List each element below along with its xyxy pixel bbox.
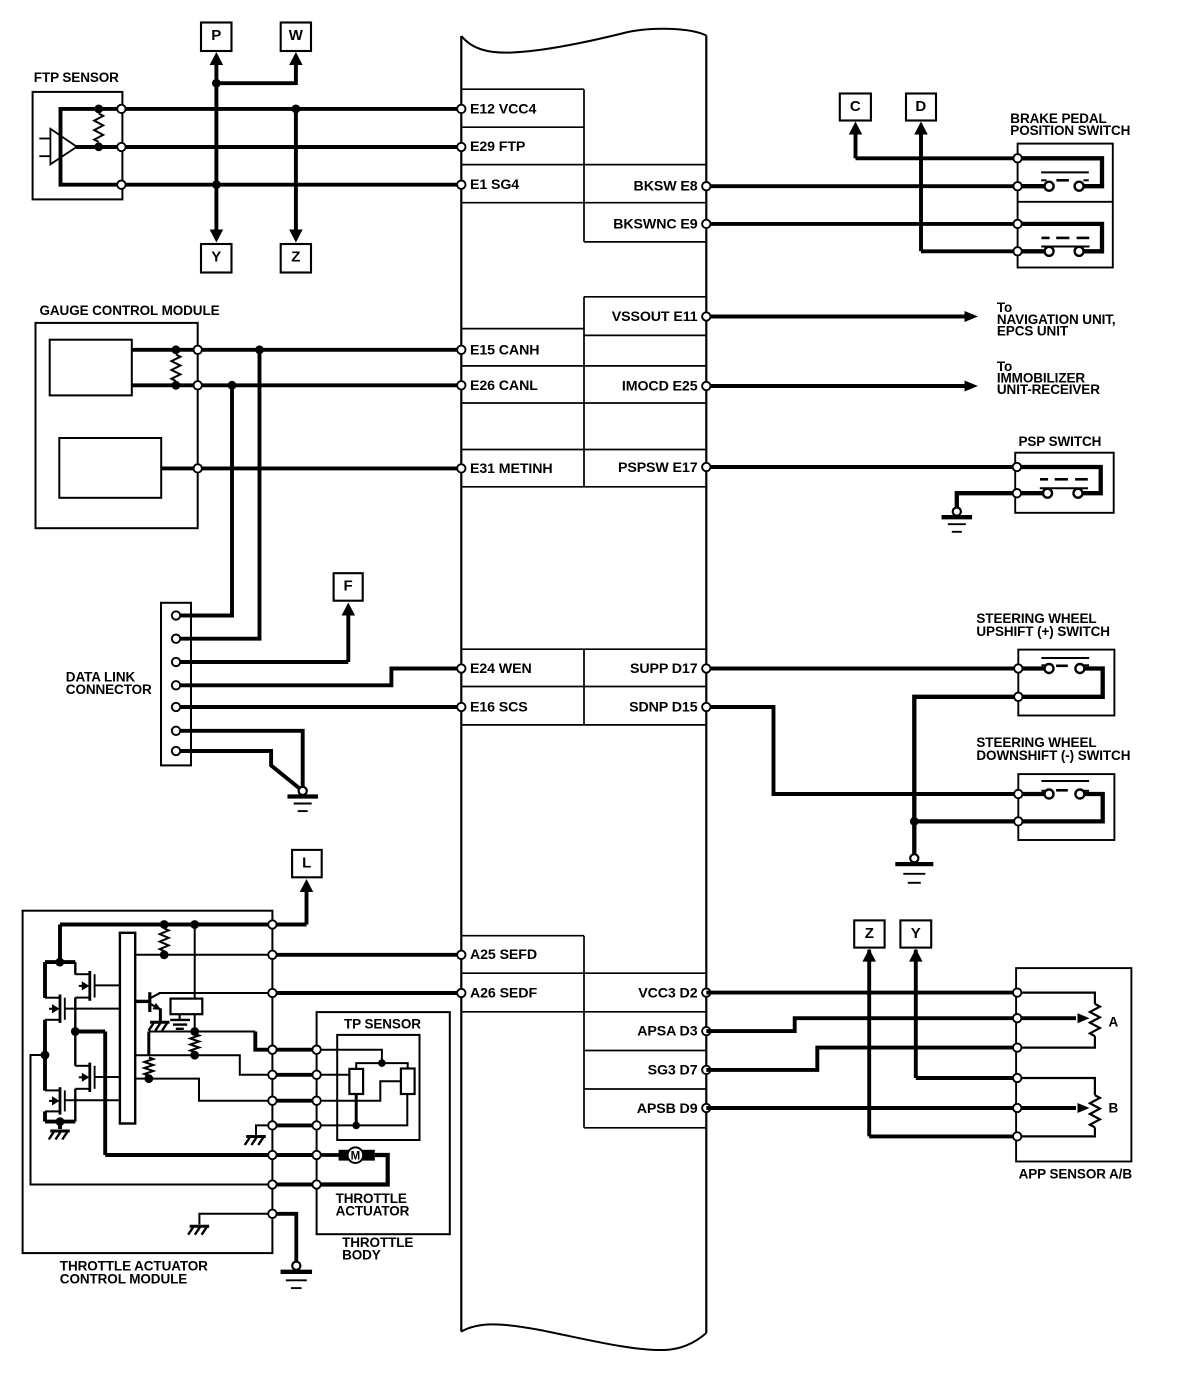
wire BKSW E8 to brake switch xyxy=(706,184,1017,188)
wire E15 CANH xyxy=(132,348,462,352)
svg-text:CONNECTOR: CONNECTOR xyxy=(66,682,152,697)
chassis ground (transistor emitter) xyxy=(150,1021,170,1024)
brake switch terminal circles xyxy=(1013,154,1021,162)
gauge module terminal circles xyxy=(194,346,202,354)
svg-text:PSP SWITCH: PSP SWITCH xyxy=(1019,434,1102,449)
svg-text:E29 FTP: E29 FTP xyxy=(470,139,525,155)
wire to connector C xyxy=(849,122,1018,159)
To NAVIGATION UNIT, EPCS UNIT label xyxy=(997,300,1116,338)
H-bridge top rail xyxy=(45,958,75,998)
ground (throttle system main) xyxy=(292,1262,300,1270)
terminal box C xyxy=(840,94,871,121)
ground (relay coil) xyxy=(170,1014,190,1029)
motor return loop xyxy=(317,1155,388,1185)
svg-text:L: L xyxy=(302,854,311,871)
upshift switch box xyxy=(1018,650,1114,716)
svg-text:VCC3 D2: VCC3 D2 xyxy=(638,985,697,1001)
row 10 main ground wire xyxy=(277,1214,297,1262)
row 10 shield wire with chassis ground xyxy=(199,1214,268,1225)
wire from connector Y to APP sensor xyxy=(909,949,1016,1078)
throttle actuator motor M xyxy=(317,1147,375,1163)
steering switch terminal circles xyxy=(1014,664,1022,672)
transistor Q5 xyxy=(150,992,161,1021)
svg-text:Z: Z xyxy=(865,925,874,942)
Q1 source to output node xyxy=(74,998,76,1032)
relay coil xyxy=(171,999,203,1015)
pin labels left side xyxy=(470,101,553,1001)
THROTTLE ACTUATOR CONTROL MODULE label xyxy=(60,1259,208,1287)
svg-text:GAUGE CONTROL MODULE: GAUGE CONTROL MODULE xyxy=(40,303,220,318)
svg-text:C: C xyxy=(850,98,861,115)
termination resistor (gauge module) xyxy=(171,355,180,382)
wire VSSOUT E11 to navigation unit xyxy=(706,311,978,322)
H-bridge output node A xyxy=(71,1027,105,1155)
svg-text:F: F xyxy=(343,578,352,595)
ECM/PCM connector column outline xyxy=(461,29,706,1350)
MOSFET Q4 (low side B) xyxy=(59,1087,62,1114)
svg-text:D: D xyxy=(915,98,926,115)
terminal box L xyxy=(292,850,322,877)
terminal box Z (lower) xyxy=(854,920,884,947)
CANH branch down to data link connector pin 2 xyxy=(180,345,264,638)
PSP switch element (normally closed) xyxy=(1017,467,1101,498)
svg-text:B: B xyxy=(1109,1101,1119,1116)
MOSFET Q1 (high side A) xyxy=(88,971,91,1001)
throttle body connector circles xyxy=(312,1046,320,1189)
svg-text:W: W xyxy=(289,27,304,44)
APP sensor terminal circles xyxy=(1013,988,1021,1140)
DLC pin 3 wire to connector F xyxy=(180,603,355,663)
svg-text:SUPP D17: SUPP D17 xyxy=(630,661,698,677)
data link connector strip xyxy=(161,603,191,766)
wire row C to throttle circle 6 xyxy=(135,1079,268,1101)
PSP switch ground wire xyxy=(957,493,1017,507)
svg-text:UPSHIFT (+) SWITCH: UPSHIFT (+) SWITCH xyxy=(976,624,1110,639)
wire SG3 D7 to APP sensor xyxy=(706,1048,1016,1070)
wire to connector L xyxy=(277,879,314,925)
svg-text:ACTUATOR: ACTUATOR xyxy=(336,1203,410,1218)
chassis ground (H-bridge) xyxy=(50,1130,70,1133)
H-bridge bottom rail xyxy=(45,1089,75,1129)
module edge connector circles xyxy=(268,920,276,1218)
svg-text:Z: Z xyxy=(291,248,300,265)
DLC pin 5 wire to E16 SCS xyxy=(180,705,461,709)
svg-text:E16 SCS: E16 SCS xyxy=(470,699,528,715)
chassis ground (row 7) xyxy=(246,1135,266,1138)
STEERING WHEEL DOWNSHIFT (-) SWITCH label xyxy=(976,735,1130,763)
wire APSA D3 to APP sensor xyxy=(706,1018,1016,1031)
DLC pin 6 ground wire xyxy=(180,731,302,787)
upshift switch element xyxy=(1018,658,1102,697)
left rail mid node xyxy=(31,1020,269,1185)
DLC pin circles xyxy=(172,611,180,755)
APP sensor box xyxy=(1016,968,1131,1161)
wire row B to throttle circle 5 xyxy=(135,1055,268,1075)
wire A26 SEDF row (collector) xyxy=(159,992,269,994)
svg-text:IMOCD E25: IMOCD E25 xyxy=(622,379,698,395)
svg-text:UNIT-RECEIVER: UNIT-RECEIVER xyxy=(997,382,1100,397)
STEERING WHEEL UPSHIFT (+) SWITCH label xyxy=(976,611,1110,639)
TP wiper 1 wire row 2 xyxy=(317,1074,350,1076)
gauge control module box xyxy=(36,323,198,528)
svg-text:APSB D9: APSB D9 xyxy=(637,1101,698,1117)
FTP internal supply/ground loop xyxy=(61,109,122,185)
DATA LINK CONNECTOR label xyxy=(66,669,152,697)
terminal box Y xyxy=(201,244,232,273)
downshift switch box xyxy=(1018,774,1114,840)
brake pedal position switch box xyxy=(1018,144,1113,268)
svg-text:APP SENSOR A/B: APP SENSOR A/B xyxy=(1019,1167,1133,1182)
TP ground wire row 4 xyxy=(317,1094,408,1129)
wire E1 SG4 xyxy=(121,183,461,187)
svg-text:TP SENSOR: TP SENSOR xyxy=(344,1017,421,1032)
resistor R3 xyxy=(144,1058,153,1084)
motor drive row 8 xyxy=(105,1153,268,1157)
svg-text:P: P xyxy=(211,27,221,44)
DLC pin 7 ground wire xyxy=(180,751,299,788)
tee wire over to W xyxy=(216,52,302,85)
ECM pin label boxes group 3 (E24 WEN/SUPP D17, E16 SCS/SDNP D15) xyxy=(461,649,706,725)
svg-text:BKSWNC E9: BKSWNC E9 xyxy=(613,216,697,232)
svg-text:POSITION SWITCH: POSITION SWITCH xyxy=(1010,123,1130,138)
svg-text:APSA D3: APSA D3 xyxy=(637,1024,697,1040)
svg-text:E26 CANL: E26 CANL xyxy=(470,378,538,394)
op-amp buffer in FTP sensor xyxy=(50,129,76,165)
FTP terminal circles xyxy=(117,105,125,113)
terminal box P xyxy=(201,23,232,52)
THROTTLE ACTUATOR label xyxy=(336,1191,410,1218)
connector P vertical wire with arrows to P and Y xyxy=(210,52,224,243)
pin labels right side xyxy=(612,179,698,1117)
terminal box F xyxy=(334,573,363,601)
svg-text:BODY: BODY xyxy=(342,1248,381,1263)
svg-text:SG3 D7: SG3 D7 xyxy=(648,1062,698,1078)
wire PSPSW E17 to PSP switch xyxy=(706,465,1017,469)
MOSFET Q2 (high side B) xyxy=(59,995,62,1024)
Q3 drain from output node xyxy=(74,1032,76,1066)
BRAKE PEDAL POSITION SWITCH label xyxy=(1010,111,1130,138)
downshift switch ground branch joining common ground xyxy=(910,817,1018,826)
brake switch lower element (BKSWNC, normally closed) xyxy=(1018,224,1102,256)
terminal box D xyxy=(906,94,936,121)
meter inner box xyxy=(59,438,161,498)
svg-text:BKSW E8: BKSW E8 xyxy=(634,179,698,195)
svg-text:A26 SEDF: A26 SEDF xyxy=(470,985,537,1001)
TP pot 1 (resistor box) xyxy=(349,1069,363,1094)
harness wires module to throttle body xyxy=(277,1050,313,1185)
To IMMOBILIZER UNIT-RECEIVER label xyxy=(997,359,1100,397)
svg-text:M: M xyxy=(351,1151,360,1163)
svg-text:SDNP D15: SDNP D15 xyxy=(629,699,698,715)
ECM terminal circles right edge xyxy=(702,182,710,1112)
resistor R2 xyxy=(190,1034,199,1060)
svg-text:E31 METINH: E31 METINH xyxy=(470,461,553,477)
APP pot A xyxy=(1016,993,1118,1048)
node: relay/divider junction xyxy=(149,1027,268,1055)
wire SUPP D17 to upshift switch xyxy=(706,667,1018,671)
relay feed vertical xyxy=(194,925,196,1032)
wire VCC3 D2 to APP sensor xyxy=(706,991,1016,995)
TP supply wire row 1 xyxy=(317,1050,408,1069)
wire E12 VCC4 (FTP to ECM) xyxy=(121,107,461,111)
svg-text:E1 SG4: E1 SG4 xyxy=(470,177,519,193)
svg-text:Y: Y xyxy=(211,248,221,265)
ECM terminal circles left edge xyxy=(457,105,465,998)
svg-text:A25 SEFD: A25 SEFD xyxy=(470,947,537,963)
svg-text:VSSOUT E11: VSSOUT E11 xyxy=(612,309,698,325)
svg-text:Y: Y xyxy=(911,925,921,942)
wire IMOCD E25 to immobilizer xyxy=(706,381,978,392)
wire SDNP D15 to downshift switch xyxy=(706,707,1018,794)
wire E26 CANL xyxy=(132,383,462,387)
FTP sensor box xyxy=(33,92,123,199)
svg-text:E24 WEN: E24 WEN xyxy=(470,661,532,677)
ECM pin label boxes group 2 (VSSOUT/CANH/CANL/IMOCD/METINH/PSPSW) xyxy=(461,297,706,487)
TP wiper 2 wire row 3 xyxy=(317,1081,401,1100)
APP pot B xyxy=(1016,1078,1118,1136)
THROTTLE BODY label xyxy=(342,1235,413,1262)
wire APSB D9 to APP sensor xyxy=(706,1106,1016,1110)
TP sensor box xyxy=(337,1035,419,1140)
DLC pin 4 wire to E24 WEN xyxy=(180,669,461,686)
wire BKSWNC E9 to brake switch xyxy=(706,222,1017,226)
row 7 sensor-ground wire xyxy=(256,1125,268,1135)
PSP switch box xyxy=(1015,453,1113,513)
PSP switch terminal circles xyxy=(1013,463,1021,471)
svg-text:DOWNSHIFT (-) SWITCH: DOWNSHIFT (-) SWITCH xyxy=(976,748,1130,763)
wire E31 METINH xyxy=(161,466,461,470)
module supply rail (top) xyxy=(60,920,268,962)
wire to connector D xyxy=(914,122,1017,252)
TP pot 2 (resistor box) xyxy=(401,1069,415,1095)
upshift switch ground branch xyxy=(914,697,1018,854)
svg-text:A: A xyxy=(1109,1014,1119,1029)
brake switch upper element (BKSW, normally open) xyxy=(1018,158,1102,190)
gate driver bus bar xyxy=(120,933,135,1124)
svg-text:E15 CANH: E15 CANH xyxy=(470,342,539,358)
ground (PSP switch) xyxy=(953,508,961,516)
throttle actuator control module box xyxy=(23,911,273,1253)
CAN controller inner box xyxy=(50,340,132,396)
pull-up resistor R1 xyxy=(160,929,169,960)
wire from connector Z to APP sensor xyxy=(862,949,1016,1137)
ECM pin label boxes group 4 (A25/A26/VCC3/APSA/SG3/APSB) xyxy=(461,936,706,1128)
terminal box Y (lower) xyxy=(900,920,931,947)
ECM pin label boxes group 1 (E12/E29/E1 | BKSW/BKSWNC) xyxy=(461,89,706,242)
wire E29 FTP xyxy=(76,145,461,149)
connector Z vertical wire xyxy=(289,105,303,243)
svg-text:CONTROL MODULE: CONTROL MODULE xyxy=(60,1272,187,1287)
downshift switch element xyxy=(1018,781,1102,821)
terminal box Z xyxy=(281,244,311,273)
svg-text:E12 VCC4: E12 VCC4 xyxy=(470,101,536,117)
wire A25 SEFD row xyxy=(135,954,268,956)
resistor in FTP sensor xyxy=(94,114,103,143)
CANL branch down to data link connector pin 1 xyxy=(180,381,236,616)
svg-text:FTP SENSOR: FTP SENSOR xyxy=(34,70,119,85)
MOSFET Q3 (low side A) xyxy=(88,1063,91,1092)
ground (data link connector) xyxy=(299,787,307,795)
ground (steering wheel switches) xyxy=(910,854,918,862)
svg-text:PSPSW E17: PSPSW E17 xyxy=(618,460,698,476)
svg-text:EPCS UNIT: EPCS UNIT xyxy=(997,324,1069,339)
terminal box W xyxy=(281,23,311,52)
throttle body box xyxy=(317,1012,450,1234)
transistor Q5 base wire xyxy=(135,1000,149,1003)
